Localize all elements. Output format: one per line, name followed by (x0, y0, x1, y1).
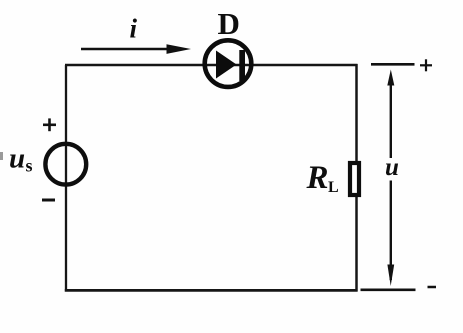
svg-text:D: D (218, 6, 240, 41)
u arrow upper segment (390, 82, 392, 158)
svg-text:L: L (328, 179, 339, 196)
top-right dash wire (371, 63, 415, 66)
current arrow i (81, 48, 172, 51)
bottom-right minus sign (428, 286, 437, 289)
bottom-right dash wire (361, 288, 416, 291)
svg-text:R: R (306, 160, 329, 196)
diode D circle (205, 40, 252, 87)
u arrow lower segment (390, 181, 392, 281)
top-right plus sign (420, 59, 432, 71)
source us circle (45, 144, 86, 185)
wire top horizontal (65, 64, 358, 66)
svg-text:u: u (9, 143, 25, 175)
diode cathode bar (239, 50, 245, 81)
svg-text:u: u (385, 154, 399, 181)
resistor RL box (350, 163, 359, 195)
u arrow bottom head (387, 265, 394, 287)
diode triangle (216, 51, 237, 79)
source minus sign (42, 199, 55, 202)
wire bottom horizontal (65, 289, 358, 292)
wire right vertical (355, 64, 358, 292)
svg-text:s: s (26, 156, 33, 176)
source plus sign (43, 118, 56, 131)
wire left vertical (65, 65, 67, 292)
svg-text:i: i (130, 14, 138, 44)
u arrow top head (387, 70, 394, 86)
scan speck at left edge (0, 152, 3, 160)
